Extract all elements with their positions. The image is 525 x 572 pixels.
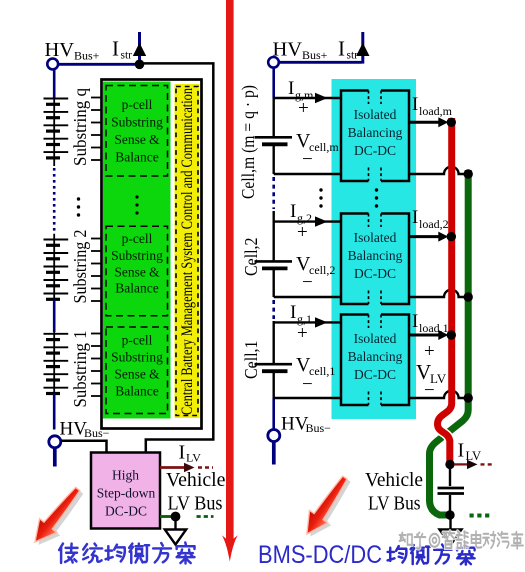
svg-text:cell,m: cell,m <box>309 140 339 154</box>
svg-text:Central Battery Management Sys: Central Battery Management System Contro… <box>179 88 196 415</box>
svg-text:I: I <box>290 201 296 222</box>
svg-text:DC-DC: DC-DC <box>105 503 147 518</box>
svg-text:Balancing: Balancing <box>348 125 403 140</box>
svg-text:DC-DC: DC-DC <box>354 367 396 382</box>
svg-text:Bus−: Bus− <box>84 426 110 440</box>
svg-text:+: + <box>298 98 309 119</box>
svg-text:Balancing: Balancing <box>348 349 403 364</box>
svg-text:p-cell: p-cell <box>122 333 153 348</box>
svg-text:str: str <box>121 50 133 62</box>
svg-text:str: str <box>347 50 359 62</box>
svg-text:Balance: Balance <box>115 383 158 398</box>
svg-text:Bus+: Bus+ <box>74 49 100 63</box>
svg-text:−: − <box>302 149 313 170</box>
svg-text:Isolated: Isolated <box>354 331 397 346</box>
svg-text:−: − <box>302 374 313 395</box>
svg-text:I: I <box>290 302 296 323</box>
svg-text:High: High <box>112 468 139 483</box>
svg-text:Step-down: Step-down <box>97 486 156 501</box>
svg-text:+: + <box>297 222 308 243</box>
svg-text:I: I <box>179 442 186 464</box>
svg-text:Substring: Substring <box>111 350 163 365</box>
svg-text:I: I <box>458 440 465 462</box>
svg-text:I: I <box>412 207 418 228</box>
svg-text:+: + <box>297 323 308 344</box>
svg-text:cell,2: cell,2 <box>309 263 335 277</box>
svg-text:Bus+: Bus+ <box>302 48 328 62</box>
svg-text:I: I <box>412 94 418 115</box>
svg-text:−: − <box>424 380 435 401</box>
svg-text:Substring: Substring <box>111 248 163 263</box>
svg-text:Balance: Balance <box>115 281 158 296</box>
svg-text:load,1: load,1 <box>419 321 449 335</box>
svg-text:Isolated: Isolated <box>354 107 397 122</box>
svg-text:Cell,2: Cell,2 <box>241 238 261 277</box>
svg-text:load,m: load,m <box>419 104 453 118</box>
svg-text:LV Bus: LV Bus <box>368 493 421 515</box>
svg-text:Substring q: Substring q <box>70 88 90 166</box>
svg-text:−: − <box>302 272 313 293</box>
svg-text:I: I <box>112 37 119 61</box>
svg-text:Sense &: Sense & <box>114 132 160 147</box>
svg-text:LV Bus: LV Bus <box>168 493 223 515</box>
svg-text:DC-DC: DC-DC <box>354 143 396 158</box>
svg-text:HV: HV <box>45 39 75 61</box>
svg-text:p-cell: p-cell <box>122 97 153 112</box>
svg-text:load,2: load,2 <box>419 217 449 231</box>
svg-text:Sense &: Sense & <box>114 367 160 382</box>
svg-text:Sense &: Sense & <box>114 265 160 280</box>
svg-text:I: I <box>288 78 294 99</box>
svg-text:Cell,1: Cell,1 <box>241 341 261 380</box>
svg-text:Vehicle: Vehicle <box>365 469 423 491</box>
svg-text:Substring 1: Substring 1 <box>70 331 90 408</box>
svg-text:Substring: Substring <box>111 115 163 130</box>
svg-text:Balancing: Balancing <box>348 248 403 263</box>
svg-text:Substring 2: Substring 2 <box>70 230 90 304</box>
svg-text:Cell,m (m = q · p): Cell,m (m = q · p) <box>238 85 258 199</box>
svg-text:LV: LV <box>186 451 201 465</box>
svg-text:cell,1: cell,1 <box>309 364 335 378</box>
svg-text:I: I <box>338 37 345 61</box>
svg-text:I: I <box>412 311 418 332</box>
svg-text:p-cell: p-cell <box>122 231 153 246</box>
svg-text:Bus−: Bus− <box>306 421 332 435</box>
svg-text:BMS-DC/DC: BMS-DC/DC <box>258 541 382 569</box>
svg-text:Balance: Balance <box>115 150 158 165</box>
svg-text:DC-DC: DC-DC <box>354 266 396 281</box>
svg-text:Isolated: Isolated <box>354 230 397 245</box>
svg-text:Vehicle: Vehicle <box>166 469 226 491</box>
svg-text:+: + <box>424 341 435 362</box>
